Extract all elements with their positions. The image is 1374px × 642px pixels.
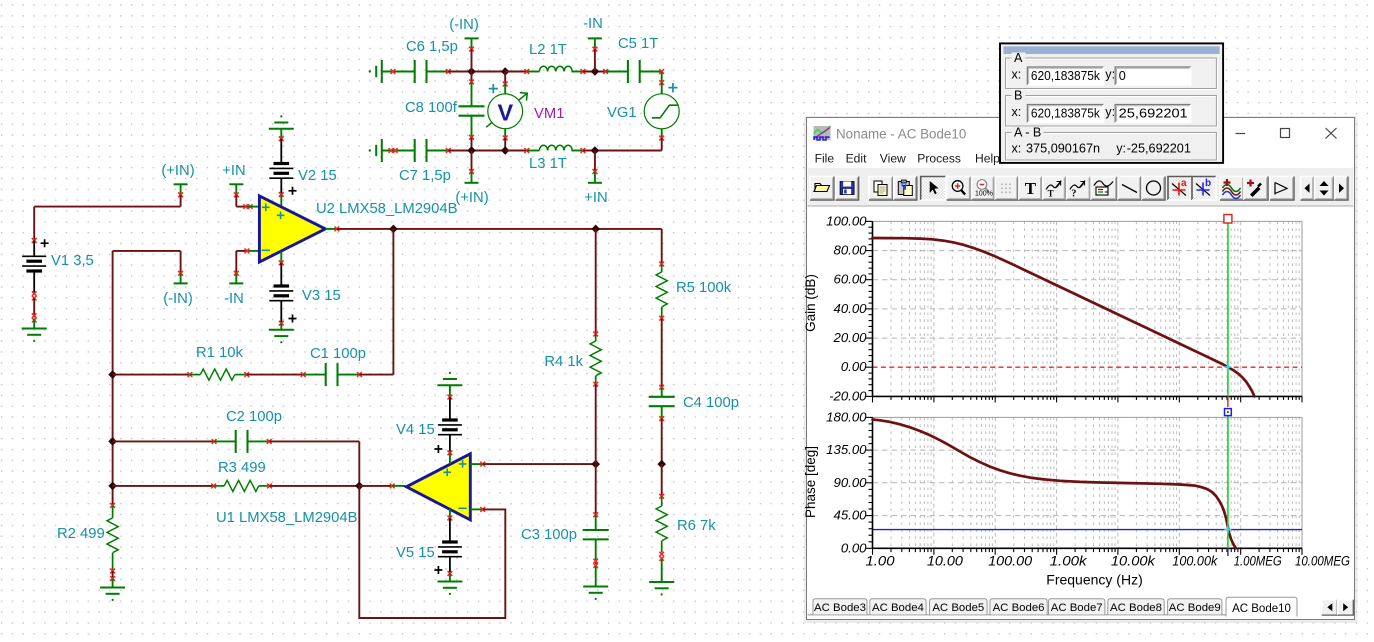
- pin R4-2: [593, 382, 598, 387]
- svg-text:Help: Help: [975, 152, 1000, 166]
- wire VG1 bottom: [661, 138, 663, 150]
- svg-text:C4 100p: C4 100p: [683, 395, 739, 411]
- wire C6 left lead: [382, 71, 415, 73]
- wire trunk: [112, 251, 114, 506]
- wire VM1 bottom lead: [504, 129, 506, 138]
- wire C2 left lead: [214, 440, 236, 442]
- wire V2 to U2: [280, 195, 282, 208]
- svg-text:-25,692201: -25,692201: [1127, 142, 1191, 156]
- wire u2 plus-in: [236, 206, 247, 208]
- pin L2-1: [524, 69, 529, 74]
- wire V4 lead top: [449, 397, 451, 419]
- pin C8-2: [469, 135, 474, 140]
- wire (-IN) stub green: [471, 38, 473, 49]
- junction trunk-R1: [108, 370, 117, 379]
- polarity + V3: [289, 315, 297, 323]
- svg-text:y:: y:: [1116, 142, 1126, 156]
- svg-text:U1 LMX58_LM2904B: U1 LMX58_LM2904B: [216, 510, 358, 526]
- pin V5-1: [448, 516, 453, 521]
- wire (+IN)L stub: [180, 195, 182, 207]
- svg-text:y:: y:: [1105, 105, 1115, 119]
- junction U1 out node: [355, 482, 364, 491]
- phase curve: [873, 420, 1237, 549]
- svg-text:(+IN): (+IN): [161, 163, 194, 179]
- wire V1 lead top: [33, 241, 35, 257]
- ground below V3: [269, 329, 294, 331]
- wire U1+ to node row: [483, 463, 596, 465]
- wire gnd1 lead: [33, 319, 35, 329]
- wire -INu2 stub: [235, 251, 237, 273]
- capacitor C4: [649, 396, 675, 398]
- svg-text:AC Bode8: AC Bode8: [1110, 602, 1162, 614]
- svg-text:10.00k: 10.00k: [1111, 554, 1156, 569]
- svg-text:a: a: [1181, 178, 1187, 189]
- gain axes: [872, 221, 874, 396]
- svg-text:90.00: 90.00: [833, 475, 867, 490]
- pin VG1-1: [659, 80, 664, 85]
- svg-text:45.00: 45.00: [833, 508, 867, 523]
- wire R3 right lead: [259, 485, 270, 487]
- phase plot grid: [872, 417, 874, 548]
- bode window shadow: [804, 116, 1358, 623]
- junction trunk-R3: [108, 482, 117, 491]
- window buttons: [1236, 133, 1246, 135]
- wire to C3: [595, 464, 597, 515]
- svg-text:C8 100f: C8 100f: [405, 100, 458, 116]
- svg-text:Frequency (Hz): Frequency (Hz): [1046, 572, 1142, 588]
- marker U1 +: [443, 469, 451, 477]
- battery V5: [442, 540, 458, 543]
- node -IN terminal: [588, 37, 602, 39]
- gain 0dB red dashed line: [873, 366, 1303, 368]
- op-amp U2: [259, 196, 325, 262]
- svg-text:V4 15: V4 15: [396, 422, 435, 438]
- pin V2-1: [279, 136, 284, 141]
- junction top-left: [467, 67, 476, 76]
- capacitor C3: [583, 529, 609, 531]
- wire top rail c: [583, 71, 606, 73]
- wire C4 to node row: [661, 419, 663, 465]
- pin R5-1: [659, 262, 664, 267]
- wire bottom rail c: [583, 150, 595, 152]
- svg-text:100.00k: 100.00k: [1172, 554, 1218, 569]
- svg-text:100.00: 100.00: [988, 554, 1033, 569]
- wire V1 to (+IN): [34, 206, 180, 208]
- wire U1 -in lead: [470, 508, 482, 510]
- svg-text:100.00: 100.00: [826, 213, 867, 228]
- svg-text:R1 10k: R1 10k: [196, 345, 243, 361]
- wire R4 top: [595, 229, 597, 334]
- wire V3 lead bottom: [280, 301, 282, 322]
- pin C7-2: [446, 148, 451, 153]
- gain plot grid: [872, 221, 874, 396]
- node (+IN) terminal: [465, 182, 479, 184]
- pin GND R2: [110, 576, 115, 581]
- svg-text:AC Bode4: AC Bode4: [872, 602, 924, 614]
- wire R6 gnd lead: [661, 559, 663, 582]
- pin U1+: [480, 462, 485, 467]
- svg-text:40.00: 40.00: [833, 301, 867, 316]
- wire top rail a: [448, 71, 505, 73]
- svg-text:(-IN): (-IN): [449, 17, 479, 33]
- svg-text:(+IN): (+IN): [455, 190, 488, 206]
- svg-text:Edit: Edit: [846, 152, 867, 166]
- svg-text:AC Bode3: AC Bode3: [814, 602, 866, 614]
- ground below R6: [649, 581, 674, 583]
- capacitor C5: [627, 60, 629, 83]
- svg-text:T: T: [1025, 179, 1037, 198]
- wire +IN stub: [594, 151, 596, 172]
- cursor lines: [1227, 223, 1229, 396]
- svg-text:1.00k: 1.00k: [1050, 554, 1088, 569]
- wire V2 gnd lead: [280, 129, 282, 139]
- wire trunk to R1: [113, 374, 190, 376]
- marker U2 +: [277, 212, 285, 220]
- wire R6 top lead: [661, 496, 663, 506]
- wire V3 gnd lead: [280, 323, 282, 330]
- node +IN u2 terminal: [229, 183, 243, 185]
- polarity + VM1: [489, 84, 498, 93]
- capacitor C1: [325, 363, 327, 386]
- capacitor C7: [414, 139, 416, 162]
- svg-text:AC Bode7: AC Bode7: [1051, 602, 1103, 614]
- pin C1-1: [301, 372, 306, 377]
- wire (-IN) stub: [471, 49, 473, 71]
- svg-text:-IN: -IN: [224, 291, 244, 307]
- pin V1-2: [32, 291, 37, 300]
- svg-text:80.00: 80.00: [833, 243, 867, 258]
- wire trunk to C2: [113, 440, 215, 442]
- svg-text:B: B: [1014, 89, 1022, 103]
- pin L3-2: [581, 148, 586, 153]
- junction top-mid: [501, 67, 510, 76]
- junction bottom-mid: [501, 146, 510, 155]
- wire VM1 top: [504, 72, 506, 85]
- capacitor C2: [235, 430, 237, 453]
- wire R2 bottom lead: [112, 553, 114, 571]
- pin C3-2: [593, 559, 598, 568]
- svg-text:(-IN): (-IN): [163, 291, 193, 307]
- wire C3 bottom lead: [595, 539, 597, 564]
- wire C5 right lead: [640, 71, 662, 73]
- wire V4 lead bottom: [449, 435, 451, 452]
- wire V5 gnd lead: [449, 574, 451, 582]
- pin C3-1: [593, 512, 598, 517]
- wire R2 gnd lead: [112, 579, 114, 588]
- node (-IN) left terminal: [174, 282, 188, 284]
- svg-text:?: ?: [1071, 189, 1076, 200]
- pin V4-1: [448, 395, 453, 400]
- node left open end lower: [369, 149, 371, 151]
- pin GND1: [32, 313, 37, 322]
- pin R2-2: [110, 569, 115, 574]
- battery V1: [22, 255, 46, 257]
- pin V3-1: [279, 260, 284, 265]
- svg-text:VM1: VM1: [534, 106, 564, 122]
- pin C6-2: [446, 69, 451, 74]
- svg-text:+IN: +IN: [584, 190, 607, 206]
- wire C1 right lead: [338, 374, 360, 376]
- svg-text:10.00: 10.00: [927, 554, 964, 569]
- wire C2 to corner: [269, 440, 359, 442]
- svg-text:AC Bode6: AC Bode6: [993, 602, 1045, 614]
- svg-text:R3 499: R3 499: [218, 460, 266, 476]
- wire V1 top: [33, 207, 35, 241]
- resistor R4: [590, 341, 601, 376]
- pin C2-2: [267, 439, 272, 444]
- svg-text:AC Bode9: AC Bode9: [1169, 602, 1221, 614]
- pin V3-2: [279, 321, 284, 326]
- junction trunk-C2: [108, 437, 117, 446]
- wire V5 lead top: [449, 518, 451, 541]
- wire R2 to gnd: [112, 571, 114, 579]
- svg-text:y:: y:: [1105, 68, 1115, 82]
- battery V4: [442, 418, 458, 421]
- ground below V5: [437, 581, 462, 583]
- svg-text:1.00: 1.00: [866, 554, 896, 569]
- svg-text:0.00: 0.00: [841, 359, 867, 374]
- svg-text:0.00: 0.00: [841, 540, 867, 555]
- svg-text:b: b: [1205, 178, 1211, 189]
- svg-text:-20.00: -20.00: [829, 388, 867, 403]
- resistor R1: [200, 369, 235, 380]
- pin U2-: [245, 249, 250, 254]
- svg-text:View: View: [880, 152, 906, 166]
- wire (-IN)L stub green: [180, 273, 182, 283]
- phase axes: [872, 417, 874, 548]
- svg-text:File: File: [815, 152, 835, 166]
- node -IN u2 terminal: [229, 282, 243, 284]
- wire V1 to ground: [33, 298, 35, 318]
- capacitor C8: [459, 105, 485, 107]
- svg-text:+IN: +IN: [222, 163, 245, 179]
- wire to R5: [661, 229, 663, 264]
- gain curve: [873, 238, 1255, 396]
- svg-text:A: A: [1014, 51, 1023, 65]
- wire C3 top lead: [595, 515, 597, 530]
- svg-text:100%: 100%: [975, 191, 993, 198]
- wire R4 bottom lead: [595, 376, 597, 384]
- pin R3-2: [267, 484, 272, 489]
- ground below R2: [100, 587, 125, 589]
- cursor panel group B: [1006, 89, 1218, 128]
- resistor R6: [656, 506, 667, 541]
- pin V5-2: [448, 571, 453, 576]
- svg-text:L3 1T: L3 1T: [529, 156, 567, 172]
- cursor panel group A: [1006, 51, 1218, 90]
- resistor R5: [656, 272, 667, 307]
- wire u2 plus-in lead: [247, 206, 259, 208]
- junction output-R4: [591, 225, 600, 234]
- svg-text:C3 100p: C3 100p: [521, 527, 577, 543]
- wire V4 gnd lead: [449, 385, 451, 397]
- wire trunk to (-IN): [113, 250, 181, 252]
- ground below C3: [583, 586, 608, 588]
- junction top-right: [591, 67, 600, 76]
- wire R2 top lead: [112, 505, 114, 518]
- svg-text:VG1: VG1: [607, 105, 637, 121]
- svg-text:C5 1T: C5 1T: [618, 36, 658, 52]
- wire R1 to C1: [247, 374, 304, 376]
- svg-text:C7 1,5p: C7 1,5p: [399, 168, 451, 184]
- pin V1-1: [32, 238, 37, 243]
- wire +INu2 stub green: [235, 184, 237, 195]
- wire R5 bottom lead: [661, 307, 663, 318]
- wire (+IN)L stub green: [180, 184, 182, 195]
- pin +IN: [593, 169, 598, 174]
- svg-text:Process: Process: [917, 152, 961, 166]
- wire feedback loop: [359, 486, 505, 618]
- svg-text:20.00: 20.00: [832, 330, 867, 345]
- svg-text:25,692201: 25,692201: [1119, 107, 1188, 121]
- svg-text:V3 15: V3 15: [302, 288, 341, 304]
- pin (-IN): [469, 47, 474, 52]
- pin (+IN) left: [178, 192, 183, 197]
- svg-text:135.00: 135.00: [826, 442, 867, 457]
- svg-text:0: 0: [1119, 69, 1126, 83]
- pin U1-: [480, 507, 485, 512]
- resistor R3: [224, 480, 258, 491]
- battery V3: [274, 284, 290, 287]
- svg-text:620,183875k: 620,183875k: [1031, 69, 1101, 83]
- inductor L3: [539, 145, 572, 150]
- polarity + V1: [41, 239, 49, 247]
- svg-text:V5 15: V5 15: [396, 545, 435, 561]
- svg-text:60.00: 60.00: [833, 272, 867, 287]
- voltmeter VM1: [488, 94, 523, 129]
- wire top rail b: [505, 71, 527, 73]
- junction output-C1: [389, 225, 398, 234]
- wire V1 lead bottom: [33, 271, 35, 294]
- svg-text:Phase [deg]: Phase [deg]: [803, 446, 818, 518]
- wire (+IN) stub green: [471, 172, 473, 183]
- wire bottom rail right: [595, 150, 662, 152]
- polarity + V5: [434, 566, 442, 574]
- svg-text:AC Bode10: AC Bode10: [1232, 603, 1291, 615]
- pin (+IN): [469, 169, 474, 174]
- battery V2: [274, 162, 290, 165]
- wire C6 right lead: [427, 71, 449, 73]
- wire bottom rail a: [448, 150, 505, 152]
- wire U1 to V5: [449, 509, 451, 518]
- svg-text:1.00MEG: 1.00MEG: [1234, 554, 1282, 569]
- wire U1 out lead: [392, 485, 405, 487]
- pin L3-1: [524, 148, 529, 153]
- toolbar: [810, 177, 834, 201]
- wire output bus: [337, 228, 662, 230]
- wire VM1 bottom: [504, 138, 506, 151]
- pin C8-1: [469, 80, 474, 85]
- junction bottom-right: [591, 146, 600, 155]
- pin C6-1: [391, 69, 396, 74]
- wire u2 minus-in: [236, 250, 247, 252]
- wire (-IN)L stub: [180, 251, 182, 273]
- inductor L2: [539, 66, 572, 71]
- svg-text:A - B: A - B: [1014, 126, 1041, 140]
- wire VM1 top lead: [504, 84, 506, 94]
- wire -IN stub green: [594, 38, 596, 49]
- cursor panel group A-B: [1006, 126, 1218, 162]
- pin R1-1: [188, 372, 193, 377]
- svg-text:R5 100k: R5 100k: [676, 280, 732, 296]
- pin C7-1: [389, 148, 398, 153]
- wire V3 lead top: [280, 263, 282, 285]
- pin L2-2: [581, 69, 586, 74]
- pin R4-1: [593, 332, 598, 337]
- window icon: [814, 126, 831, 140]
- svg-text:Gain (dB): Gain (dB): [803, 274, 818, 332]
- wire R3 left lead: [214, 485, 225, 487]
- wire R5 top lead: [661, 264, 663, 272]
- svg-text:375,090167n: 375,090167n: [1026, 142, 1100, 156]
- pin VM1-2: [503, 136, 508, 141]
- pin R2-1: [110, 503, 115, 508]
- wire U1 +in lead: [470, 463, 482, 465]
- wire VG1 bottom lead: [661, 129, 663, 138]
- svg-text:R6 7k: R6 7k: [677, 518, 716, 534]
- pin C4-1: [659, 385, 664, 390]
- wire (+IN) stub: [471, 151, 473, 172]
- wire junction to C1: [392, 229, 394, 375]
- svg-text:R4 1k: R4 1k: [544, 354, 583, 370]
- wire R1 left lead: [190, 374, 200, 376]
- tab bar: [808, 614, 1227, 616]
- marker U1 +in: [459, 460, 467, 468]
- svg-text:C1 100p: C1 100p: [310, 346, 366, 362]
- wire R1 right lead: [235, 374, 247, 376]
- pin V2-2: [279, 192, 284, 197]
- polarity + V2: [289, 187, 297, 195]
- wire -INu2 stub green: [235, 273, 237, 283]
- svg-text:C6 1,5p: C6 1,5p: [406, 39, 458, 55]
- svg-text:V2 15: V2 15: [298, 168, 337, 184]
- wire V2 lead top: [280, 139, 282, 162]
- pin C4-2: [659, 416, 664, 421]
- svg-text:Noname - AC Bode10: Noname - AC Bode10: [836, 127, 966, 142]
- wire C1 to junction: [360, 374, 394, 376]
- wire R6 bottom lead: [661, 541, 663, 553]
- wire U2 out lead: [325, 228, 337, 230]
- wire L2 right lead: [571, 71, 583, 73]
- wire U2 to V3: [280, 252, 282, 263]
- wire C4 bottom lead: [661, 406, 663, 418]
- svg-text:x:: x:: [1012, 105, 1022, 119]
- marker U2 -in: [262, 249, 270, 251]
- wire C8 top: [471, 72, 473, 82]
- svg-text:U2 LMX58_LM2904B: U2 LMX58_LM2904B: [316, 201, 458, 217]
- svg-text:T: T: [1048, 189, 1054, 199]
- wire corner down to R3 node: [358, 441, 360, 486]
- wire C8 bottom lead: [471, 116, 473, 138]
- wire L3 left lead: [527, 150, 540, 152]
- wire C1 left lead: [303, 374, 325, 376]
- wire C7 left lead: [382, 150, 415, 152]
- svg-text:=: =: [1105, 189, 1109, 196]
- wire -IN stub: [594, 49, 596, 71]
- pin U1 out: [390, 484, 395, 489]
- pin +IN u2: [234, 192, 239, 197]
- wire R5 to C4: [661, 318, 663, 387]
- pin R6-1: [659, 494, 664, 499]
- wire V2 lead bottom: [280, 178, 282, 193]
- resistor R2: [107, 518, 118, 553]
- pin C2-1: [212, 439, 217, 444]
- phase blue line: [873, 529, 1303, 531]
- wire bottom rail b: [505, 150, 527, 152]
- wire u2 minus-in lead: [247, 250, 259, 252]
- pin C5-2: [659, 69, 664, 74]
- node (+IN) left terminal: [174, 183, 188, 185]
